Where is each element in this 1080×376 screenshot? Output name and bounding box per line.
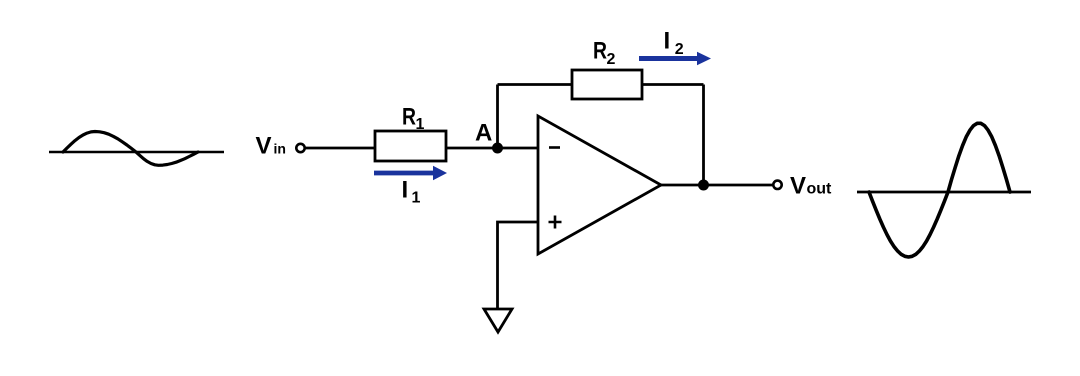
- svg-text:out: out: [807, 181, 833, 198]
- resistor R2: [572, 70, 642, 99]
- op-amp U1: [538, 116, 661, 254]
- svg-text:A: A: [475, 119, 492, 146]
- svg-text:R: R: [402, 103, 416, 130]
- wire Vin to R1: [305, 147, 375, 150]
- svg-text:V: V: [790, 172, 806, 199]
- wire R1 to op-amp: [446, 147, 538, 150]
- svg-text:I: I: [402, 176, 409, 203]
- svg-text:2: 2: [607, 51, 616, 68]
- resistor R1: [375, 131, 446, 161]
- svg-text:R: R: [593, 38, 607, 65]
- wire op-amp plus input: [498, 222, 539, 309]
- op-amp non-inverting input mark: [549, 216, 562, 229]
- input waveform axis: [49, 151, 224, 154]
- svg-text:V: V: [256, 133, 272, 160]
- svg-text:1: 1: [412, 190, 421, 207]
- terminal Vout: [773, 181, 781, 189]
- current arrow I2: [639, 52, 711, 65]
- output waveform sine: [869, 123, 1010, 257]
- output waveform axis: [857, 191, 1031, 194]
- svg-text:I: I: [664, 28, 671, 55]
- wire feedback top right: [642, 83, 704, 86]
- input waveform sine: [63, 132, 198, 166]
- output node: [698, 180, 709, 191]
- op-amp inverting input mark: [549, 146, 560, 149]
- svg-text:in: in: [274, 141, 286, 157]
- terminal Vin: [296, 144, 304, 152]
- wire node A up to feedback: [496, 85, 499, 149]
- svg-text:2: 2: [675, 41, 684, 58]
- wire feedback down to output: [702, 85, 705, 186]
- svg-text:1: 1: [416, 116, 425, 133]
- ground: [484, 309, 512, 332]
- current arrow I1: [374, 166, 447, 181]
- wire feedback top left: [498, 83, 573, 86]
- node A: [492, 143, 503, 154]
- wire op-amp output: [661, 184, 773, 187]
